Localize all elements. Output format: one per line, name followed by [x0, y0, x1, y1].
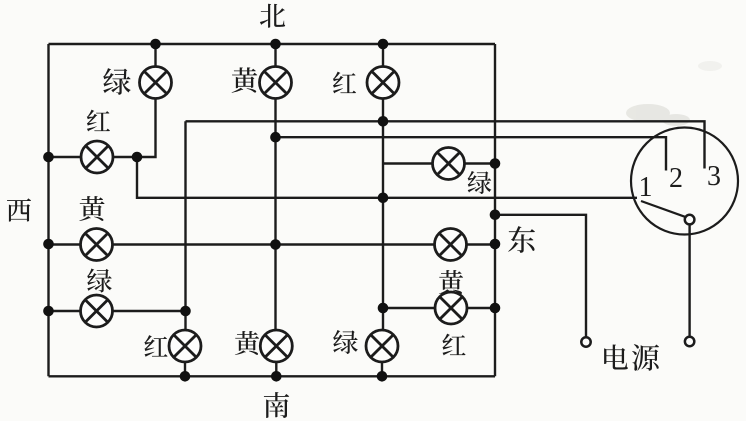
wire west-yellow to east-yellow (yellow net) [113, 243, 435, 245]
wire north-yellow to south-yellow vertical [274, 99, 276, 331]
junction red vertical / east-red row [378, 303, 389, 314]
label 北 (north) [260, 4, 285, 28]
switch S1 pivot [685, 215, 695, 225]
label 绿 south green [333, 330, 358, 354]
junction bottom bus / south-red [180, 371, 191, 382]
wire east bus (right edge) [494, 44, 496, 376]
wire west-yellow lamp to left bus [49, 243, 81, 245]
junction left bus / west-yellow [43, 239, 54, 250]
node A junction west-red / contact-1 wire [132, 152, 143, 163]
lamp south green [366, 330, 398, 362]
junction right bus / east-green [490, 158, 501, 169]
junction top bus / yellow stem [270, 39, 281, 50]
lamp south red [169, 330, 201, 362]
lamp west green [81, 295, 113, 327]
wire east-red lamp to right bus [467, 307, 495, 309]
lamp west yellow [81, 229, 113, 261]
wire north-yellow lamp to top bus [274, 44, 276, 67]
label 源 (power) [632, 344, 659, 371]
wire south-red lamp to bottom bus [184, 362, 186, 376]
label 红 east red [442, 334, 465, 356]
lamp east yellow [435, 229, 467, 261]
wire switch pivot to power terminal right [688, 224, 690, 337]
junction yellow vertical / yellow row [270, 239, 281, 250]
wire yellow net to switch contact 2 [276, 137, 667, 170]
lamp north green [140, 67, 172, 99]
junction south-red stem / west-green row [180, 306, 191, 317]
wire north-green lamp to top bus [154, 44, 156, 67]
label 红 south red [144, 335, 167, 357]
wire west-green lamp to left bus [49, 310, 81, 312]
junction bottom bus / south-yellow [271, 371, 282, 382]
junction red vertical / contact-3 wire [378, 116, 389, 127]
wire north-red lamp to top bus [382, 44, 384, 67]
label 黄 west yellow [79, 196, 104, 221]
label 电 (power) [604, 344, 628, 369]
label 黄 north yellow [232, 67, 258, 92]
label 红 north red [333, 72, 356, 94]
svg-text:3: 3 [707, 161, 721, 192]
wire south-green lamp to bottom bus [381, 362, 383, 376]
label 西 (west) [7, 198, 31, 221]
junction top bus / red stem [378, 39, 389, 50]
lamp north red [367, 67, 399, 99]
wire north bus (top) [49, 43, 496, 45]
wire red net vertical to south-red [184, 121, 186, 330]
svg-text:1: 1 [639, 172, 653, 203]
lamp east green [433, 148, 465, 180]
label 绿 west green [87, 269, 112, 293]
label 绿 north green [103, 68, 130, 95]
wire west-green to south-red node [113, 310, 186, 312]
wire east-yellow lamp to right bus [467, 243, 496, 245]
switch S1 wiper arm [641, 201, 686, 217]
wire node A to switch contact 1 [137, 157, 637, 198]
wire west bus (left edge) [47, 44, 49, 376]
wire north-red to south-green vertical [382, 99, 384, 331]
wire red vertical to east-green lamp [383, 162, 433, 164]
lamp west red [81, 141, 113, 173]
junction right bus / east-yellow [490, 239, 501, 250]
junction yellow vertical / contact-2 wire [270, 132, 281, 143]
lamp south yellow [260, 330, 292, 362]
label 黄 east yellow [439, 270, 463, 294]
junction top bus / green stem [150, 39, 161, 50]
switch S1 rotary selector body [631, 128, 738, 235]
lamp north yellow [260, 67, 292, 99]
wire red net to switch contact 3 [186, 121, 705, 168]
terminal power right [685, 337, 694, 346]
junction bottom bus / south-green [377, 371, 388, 382]
junction left bus / west-green [43, 306, 54, 317]
lamp east red [435, 292, 467, 324]
label 东 (east) [508, 226, 535, 253]
svg-text:2: 2 [669, 163, 683, 194]
label 南 (south) [264, 392, 289, 418]
junction right bus / power tap [490, 210, 501, 221]
junction left bus / west-red [43, 152, 54, 163]
wire south bus (bottom) [49, 375, 496, 377]
label 绿 east green [468, 171, 492, 194]
label 红 west red [87, 110, 110, 132]
wire red vertical to east-red lamp [383, 307, 435, 309]
junction red vertical / contact-1 wire [378, 193, 389, 204]
label 黄 south yellow [235, 331, 259, 355]
wire west-red lamp to left bus [49, 156, 82, 158]
wire east-green lamp to right bus [465, 162, 496, 164]
wire south-yellow lamp to bottom bus [275, 362, 277, 376]
junction right bus / east-red [490, 303, 501, 314]
wire right bus to power terminal left [495, 215, 586, 337]
terminal power left [581, 337, 590, 346]
wire north-green bottom to west-red node [113, 99, 156, 158]
